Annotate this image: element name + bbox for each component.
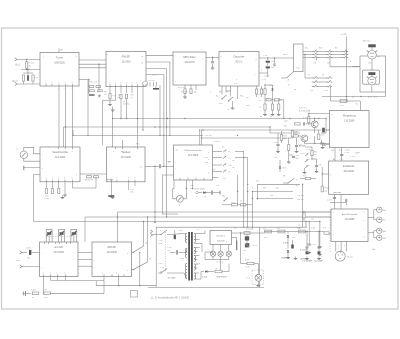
variable capacitor C301 xyxy=(47,231,52,242)
svg-text:C 207: C 207 xyxy=(311,244,316,246)
wire xyxy=(264,85,266,89)
wire xyxy=(303,142,305,144)
svg-text:120k: 120k xyxy=(44,297,48,299)
wire xyxy=(132,269,134,271)
resistor R220 xyxy=(45,189,47,194)
svg-text:b: b xyxy=(116,273,117,275)
ground xyxy=(294,257,298,260)
pin stub xyxy=(123,274,125,276)
wire xyxy=(186,249,188,253)
ground xyxy=(276,150,280,153)
svg-text:Decoder: Decoder xyxy=(234,55,245,59)
junction xyxy=(186,188,187,189)
junction xyxy=(314,118,315,119)
svg-text:2: 2 xyxy=(42,154,43,156)
ground xyxy=(307,251,311,254)
svg-text:9: 9 xyxy=(76,57,77,59)
wire block7 bottom pin xyxy=(345,242,347,248)
switch A blade xyxy=(133,246,144,253)
wire xyxy=(371,85,373,92)
test circle xyxy=(196,191,198,193)
svg-text:11,4V: 11,4V xyxy=(300,153,305,155)
transformer secondary winding 4 xyxy=(194,264,196,270)
pin stub top varcap xyxy=(48,242,50,244)
svg-text:4u7: 4u7 xyxy=(118,97,121,99)
wire xyxy=(345,202,347,205)
ground xyxy=(317,257,321,260)
capacitor C220 dark xyxy=(291,245,294,249)
pin stub top varcap xyxy=(66,242,68,244)
wire decoder bottom pin3 xyxy=(230,86,232,97)
svg-text:FM-ZF: FM-ZF xyxy=(122,55,131,59)
pin stub xyxy=(110,180,112,182)
wire FM-ZF out2 xyxy=(146,61,170,63)
wire xyxy=(296,138,298,145)
lamp La1 xyxy=(210,251,215,256)
junction xyxy=(252,191,253,192)
svg-text:4: 4 xyxy=(94,267,95,269)
wire pin10 loop xyxy=(73,177,97,188)
diode Gl3 xyxy=(287,250,289,252)
wire xyxy=(277,146,279,150)
wire y184.3 xyxy=(258,183,301,185)
svg-text:1: 1 xyxy=(45,82,46,84)
wire vertical x155 xyxy=(154,166,156,222)
wire T1 collector up xyxy=(314,119,316,121)
wire vertical x240.5 xyxy=(240,233,242,264)
ground xyxy=(286,256,290,259)
svg-text:113.1803: 113.1803 xyxy=(188,154,199,157)
wire block13 pin to strip xyxy=(232,237,237,239)
motor Bv3 xyxy=(367,77,377,85)
pin stub xyxy=(111,274,113,276)
pin stub xyxy=(120,84,122,86)
wire xyxy=(241,263,248,265)
svg-text:10: 10 xyxy=(255,59,257,61)
wire xyxy=(303,218,305,222)
switch contact lower xyxy=(326,85,332,88)
svg-text:1: 1 xyxy=(333,213,334,215)
wire xyxy=(174,230,176,235)
junction xyxy=(243,227,244,228)
svg-text:U4: U4 xyxy=(314,63,316,65)
svg-text:8: 8 xyxy=(350,61,351,63)
svg-text:11,4V: 11,4V xyxy=(306,149,311,151)
ground xyxy=(295,150,299,153)
svg-text:1 202: 1 202 xyxy=(345,150,350,152)
svg-text:Anschlussplatte: Anschlussplatte xyxy=(342,213,358,216)
wire lamp bottom xyxy=(220,257,222,260)
wire tuner pin 5 down xyxy=(65,86,67,147)
svg-text:4: 4 xyxy=(42,168,43,170)
socket Bu7 xyxy=(377,217,382,222)
wire bus y96.5 xyxy=(322,96,386,98)
svg-text:B+3: B+3 xyxy=(374,97,377,99)
ground bar dark tastteil xyxy=(108,195,114,197)
capacitor C221 xyxy=(305,247,308,248)
wire stub xyxy=(50,277,52,281)
svg-text:Si 3: Si 3 xyxy=(263,228,266,230)
svg-text:113.2070: 113.2070 xyxy=(184,61,195,64)
fuse Si2 xyxy=(244,232,250,235)
switch contact S2a xyxy=(221,95,226,100)
svg-text:1 OLD: 1 OLD xyxy=(202,277,208,279)
wire xyxy=(285,231,298,233)
resistor xyxy=(303,212,305,218)
relay box U6 xyxy=(294,44,304,72)
svg-text:S 1: S 1 xyxy=(160,230,163,232)
svg-text:C2x: C2x xyxy=(311,219,314,221)
svg-text:R5x 10k: R5x 10k xyxy=(181,92,188,94)
junction xyxy=(27,69,28,70)
svg-text:3: 3 xyxy=(58,82,59,84)
wire socket pair split xyxy=(373,210,375,220)
wire xyxy=(27,70,29,75)
wire xyxy=(222,204,232,206)
svg-text:4n7: 4n7 xyxy=(283,138,286,140)
wire lamp common down xyxy=(220,260,222,272)
wire stub down to cluster xyxy=(98,64,100,79)
wire xyxy=(178,251,183,253)
junction xyxy=(303,211,304,212)
wire switch A up to bus xyxy=(143,222,145,247)
svg-text:Vo Tu f: Vo Tu f xyxy=(152,75,158,77)
junction xyxy=(346,100,347,101)
svg-text:Regelung: Regelung xyxy=(343,114,356,118)
svg-text:12: 12 xyxy=(65,151,67,153)
pin stub top varcap xyxy=(70,242,72,244)
ground xyxy=(108,103,112,106)
svg-text:4: 4 xyxy=(134,178,135,180)
svg-text:C9x: C9x xyxy=(256,181,259,183)
svg-text:R9x: R9x xyxy=(263,188,266,190)
wire U6 pin xyxy=(303,54,312,56)
junction xyxy=(65,126,66,127)
wire xyxy=(132,251,134,253)
diode DGF xyxy=(203,191,206,194)
wire xyxy=(32,81,34,84)
capacitor C95 xyxy=(315,165,318,166)
wire xyxy=(311,156,313,159)
wire xyxy=(96,285,156,287)
wire xyxy=(72,130,74,135)
wire xyxy=(371,47,373,50)
switch contact xyxy=(342,53,348,56)
wire T2 base xyxy=(298,135,301,137)
svg-text:R3: R3 xyxy=(283,176,285,178)
svg-text:R 100: R 100 xyxy=(245,260,250,262)
wire +UB down xyxy=(345,37,347,102)
wire Regelteil to Endstufe 1 xyxy=(334,148,336,162)
wire meter top loop xyxy=(24,147,40,154)
svg-text:4,7k BC238B: 4,7k BC238B xyxy=(299,110,311,112)
junction xyxy=(346,96,347,97)
svg-text:R9: R9 xyxy=(259,100,261,102)
svg-text:S1a: S1a xyxy=(305,48,308,50)
svg-text:1k: 1k xyxy=(227,109,229,111)
wire block7 pin a xyxy=(368,216,374,218)
wire xyxy=(267,58,269,60)
wire lamp bottom xyxy=(212,257,214,260)
svg-text:4n7: 4n7 xyxy=(213,169,216,171)
wire pin down to bus xyxy=(142,93,144,130)
svg-text:C 2x: C 2x xyxy=(262,79,266,81)
pin stub xyxy=(72,84,74,86)
solenoid plate xyxy=(368,72,375,75)
svg-text:R 2xx: R 2xx xyxy=(44,198,49,200)
wire La to vertical xyxy=(235,157,248,159)
capacitor dark xyxy=(306,251,309,254)
junction xyxy=(240,232,241,233)
socket Bu9 xyxy=(377,235,382,240)
capacitor C110 xyxy=(303,122,304,125)
pin stub xyxy=(203,178,205,180)
svg-text:1k: 1k xyxy=(240,201,242,203)
wire xyxy=(306,231,325,233)
wire to Regelteil xyxy=(304,143,329,145)
wire xyxy=(329,58,331,67)
wire xyxy=(118,277,120,286)
wire xyxy=(347,100,360,102)
wire lamp top xyxy=(228,245,230,252)
wire y198.5 xyxy=(258,198,294,200)
inner frame Bv3 xyxy=(363,70,380,84)
switch hi xyxy=(287,179,294,184)
svg-text:IC/05: IC/05 xyxy=(269,85,274,87)
wire xyxy=(254,263,258,265)
wire xyxy=(330,202,346,204)
transformer primary winding 3 xyxy=(185,264,186,279)
wire vertical x252.5 xyxy=(252,192,254,228)
svg-text:Si 2 0,5A: Si 2 0,5A xyxy=(246,228,254,231)
wire x117.5 down to AM-ZF xyxy=(117,212,119,242)
capacitor coupling xyxy=(159,164,160,168)
svg-text:Raa: Raa xyxy=(240,96,243,98)
capacitor C208 xyxy=(340,154,343,155)
wire lower antenna xyxy=(21,69,40,71)
transformer secondary winding 1 xyxy=(194,234,196,243)
wire decoder out to U6 xyxy=(259,57,294,59)
wire xyxy=(296,147,298,150)
wire xyxy=(315,58,317,61)
svg-text:C/2W PROFI: C/2W PROFI xyxy=(216,277,227,279)
wire xyxy=(228,264,230,272)
resistor R4d xyxy=(260,89,262,94)
wire xyxy=(278,99,280,104)
wire xyxy=(112,107,114,109)
svg-text:T5x: T5x xyxy=(355,104,358,106)
svg-text:5: 5 xyxy=(72,178,73,180)
capacitor C1x xyxy=(274,63,275,66)
junction xyxy=(159,135,160,136)
socket Bu6 xyxy=(377,207,382,212)
wire AM-HF to AM-ZF xyxy=(78,258,92,260)
test point arrow Lb xyxy=(223,170,226,173)
bus wire y221.5 from Steuerzentrale xyxy=(34,175,320,222)
wire sec tap xyxy=(194,239,199,241)
wire xyxy=(287,238,289,249)
wire feed lower group xyxy=(304,55,306,79)
junction xyxy=(137,118,138,119)
svg-text:P10: P10 xyxy=(136,144,139,146)
rectifier Gl1 dark xyxy=(245,236,249,240)
svg-text:113.2030: 113.2030 xyxy=(107,251,118,254)
wire xyxy=(319,222,321,246)
wire xyxy=(269,127,271,133)
transformer primary winding 1 xyxy=(185,234,186,243)
wire Steuer bottom pin xyxy=(52,182,54,188)
wire stub xyxy=(65,277,67,281)
wire xyxy=(316,51,325,53)
switch contact xyxy=(312,53,318,56)
legend box xyxy=(131,291,138,298)
wire block7 pin b xyxy=(368,232,374,234)
svg-text:B 2x: B 2x xyxy=(253,245,257,247)
svg-text:5: 5 xyxy=(72,82,73,84)
svg-text:Tuner: Tuner xyxy=(56,56,63,60)
wire MPX bottom pin down xyxy=(159,85,161,135)
svg-text:3: 3 xyxy=(128,178,129,180)
wire vertical x139.8 xyxy=(139,252,141,281)
junction xyxy=(289,118,290,119)
junction xyxy=(154,216,155,217)
wire sec tap b xyxy=(194,243,202,245)
resistor R1x2 xyxy=(291,131,293,137)
pin stub xyxy=(134,180,136,182)
junction xyxy=(117,216,118,217)
resistor R17 xyxy=(311,150,313,156)
capacitor C1x xyxy=(120,94,122,99)
ground decoder cluster xyxy=(231,106,235,109)
pin stub top xyxy=(115,147,117,149)
svg-text:C 107: C 107 xyxy=(264,76,270,78)
svg-text:9D 2.1: 9D 2.1 xyxy=(235,61,243,64)
svg-text:Tastteil: Tastteil xyxy=(121,150,130,154)
svg-text:R3x: R3x xyxy=(205,162,208,164)
ground under FM-ZF xyxy=(111,108,115,111)
svg-text:R 11 T 1: R 11 T 1 xyxy=(299,108,307,110)
wire sec tap xyxy=(194,255,199,257)
bus wire y127 xyxy=(63,126,270,128)
wire xyxy=(321,167,323,174)
wire xyxy=(331,100,340,102)
ground xyxy=(277,113,281,116)
junction xyxy=(163,135,164,136)
svg-text:C 209: C 209 xyxy=(350,156,355,158)
resistor Rab xyxy=(275,99,280,101)
svg-text:560: 560 xyxy=(314,154,317,156)
svg-text:8: 8 xyxy=(221,57,222,59)
wire xyxy=(316,167,318,170)
junction xyxy=(264,84,265,85)
svg-text:L10x: L10x xyxy=(231,202,235,204)
svg-text:1: 1 xyxy=(332,145,333,147)
dotted switch link xyxy=(165,232,167,273)
fuse Si3 xyxy=(265,230,272,233)
test point arrow xyxy=(305,153,308,156)
wire handle to block xyxy=(24,167,40,169)
wire xyxy=(277,133,279,144)
svg-text:Bu9: Bu9 xyxy=(383,238,386,240)
junction xyxy=(202,129,203,130)
wire xyxy=(267,63,269,66)
svg-text:S.1 220V: S.1 220V xyxy=(300,250,308,252)
bus wire y130 xyxy=(202,129,330,131)
svg-text:113.1400: 113.1400 xyxy=(55,156,66,159)
svg-text:L: L xyxy=(255,74,256,76)
wire xyxy=(374,237,377,239)
wire lamp top xyxy=(220,245,222,252)
svg-text:100.2090: 100.2090 xyxy=(343,170,354,173)
resistor R203 xyxy=(32,75,34,81)
svg-text:113.2050: 113.2050 xyxy=(345,218,355,221)
tuning loop C303 xyxy=(71,229,77,242)
capacitor C214 xyxy=(346,199,347,202)
svg-text:S2a: S2a xyxy=(219,103,222,105)
junction xyxy=(26,69,27,70)
svg-text:C95: C95 xyxy=(319,165,322,167)
wire xyxy=(281,77,287,79)
wire vertical x237.5 xyxy=(237,175,239,205)
pin stub top xyxy=(137,147,139,149)
svg-text:10n Rxxx: 10n Rxxx xyxy=(333,192,341,194)
wire into Regelteil xyxy=(359,101,361,111)
pin stub xyxy=(65,274,67,276)
wire diff pin xyxy=(213,150,223,152)
tuning loop C302 xyxy=(59,229,65,242)
wire xyxy=(246,204,253,206)
ground MPX xyxy=(183,95,187,98)
junction xyxy=(139,252,140,253)
svg-text:12: 12 xyxy=(140,167,142,169)
switch contact S2b xyxy=(228,97,233,102)
junction xyxy=(120,118,121,119)
mains switch S1b xyxy=(160,269,167,274)
resistor xyxy=(324,232,329,234)
pin stub xyxy=(195,178,197,180)
junction xyxy=(166,216,167,217)
switch contact xyxy=(342,50,348,53)
wire AM-ZF pin down xyxy=(103,277,105,294)
capacitor C8x xyxy=(292,156,295,157)
wire U6 pin xyxy=(303,51,312,53)
svg-text:4: 4 xyxy=(64,178,65,180)
svg-text:L: L xyxy=(57,273,58,275)
wire decoder bottom pin1 xyxy=(221,86,223,95)
svg-text:C4x +4,9: C4x +4,9 xyxy=(90,81,97,83)
wire switch to fuse xyxy=(330,87,332,102)
svg-text:Bu 2: Bu 2 xyxy=(13,80,19,83)
transformer secondary winding 5 xyxy=(194,273,196,279)
wire xyxy=(156,82,158,87)
pin stub xyxy=(128,180,130,182)
svg-text:am HF: am HF xyxy=(54,245,63,249)
svg-text:Vo Tu f: Vo Tu f xyxy=(149,80,156,82)
svg-text:p: p xyxy=(332,114,333,116)
pin stub xyxy=(179,178,181,180)
wire vertical x169.9 xyxy=(169,62,171,135)
resistor below FM-ZF xyxy=(109,94,111,99)
wire Endstufe to block7 xyxy=(334,203,336,210)
svg-text:0,5u: 0,5u xyxy=(178,233,182,235)
svg-text:R 1x: R 1x xyxy=(303,117,307,119)
fuse Si4 xyxy=(278,230,285,233)
svg-text:Tb: Tb xyxy=(322,75,324,77)
wire xyxy=(212,58,214,62)
pin stub xyxy=(187,178,189,180)
diode Gl2 xyxy=(287,235,289,237)
junction xyxy=(304,54,305,55)
